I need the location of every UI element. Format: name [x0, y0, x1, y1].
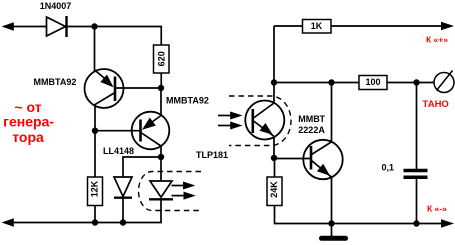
svg-text:К «+»: К «+»: [426, 35, 448, 45]
svg-text:MMBTA92: MMBTA92: [34, 77, 77, 87]
wire: Q4 collector up to node H: [331, 83, 333, 142]
arrow: to battery minus (bottom right): [441, 219, 454, 227]
svg-text:ТАНО: ТАНО: [423, 99, 449, 110]
wire: R24K bottom to bottom rail: [275, 206, 444, 224]
wire: D1 cathode to node A: [68, 26, 95, 28]
wire: node B down to Q2 emitter: [160, 88, 162, 116]
svg-text:1N4007: 1N4007: [40, 1, 72, 11]
U1 light arrow 1: [218, 112, 243, 120]
svg-text:0,1: 0,1: [382, 162, 395, 172]
arrow: to generator (top left): [2, 22, 14, 30]
svg-text:MMBTA92: MMBTA92: [166, 95, 209, 105]
wire: node I down to C1: [416, 83, 418, 170]
svg-text:~ от: ~ от: [14, 99, 41, 115]
node C (Q1 collector / Q2 base): [92, 128, 98, 134]
wire: Q4 emitter down to ground node: [331, 177, 333, 223]
node G (phototransistor collector node): [271, 79, 277, 85]
svg-text:620: 620: [157, 51, 167, 66]
resistor R2 12K: [88, 177, 103, 206]
wire: node J to Q4 base: [274, 158, 312, 160]
svg-text:ММВТ: ММВТ: [298, 114, 325, 124]
node A (D1 / Q1 emitter / R620): [91, 23, 97, 29]
wire: node D to LED anode: [160, 157, 162, 181]
transistor Q1 MMBTA92 (PNP): [85, 69, 124, 108]
svg-text:TLP181: TLP181: [196, 150, 228, 160]
diode D2 LL4148: [114, 177, 132, 198]
wire: Q1 base to node B: [115, 87, 161, 89]
node B (R620 / Q1 base / Q2 emitter): [158, 85, 164, 91]
wire: node J down to R24K: [274, 158, 276, 177]
transistor Q2 MMBTA92 (PNP): [132, 112, 170, 150]
wire: Q1 collector down to R12K: [94, 105, 96, 177]
node D (Q2 collector / LL4148 anode / LED anode): [158, 154, 164, 160]
wire: node A to R620 top: [95, 27, 162, 46]
wire: node A down to Q1 emitter: [94, 27, 96, 72]
node I (C1 top / output): [413, 79, 419, 85]
node H (Q4 collector tap): [328, 79, 334, 85]
wire: node D to LL4148 anode: [123, 157, 161, 177]
node J (Q4 base / R24K top): [271, 155, 277, 161]
resistor R3 1K: [303, 20, 332, 34]
arrow: to generator return (bottom left): [2, 218, 14, 226]
ground: [322, 224, 346, 239]
U1 light arrow 2: [218, 122, 243, 130]
wire: bottom-left generator return rail: [6, 222, 162, 224]
svg-text:24K: 24K: [269, 181, 279, 198]
wire: Q2 collector to node D: [160, 146, 162, 157]
optocoupler U1 phototransistor: [245, 101, 284, 140]
wire: R100 right to output terminal: [387, 82, 434, 84]
arrow: to battery plus (top right): [441, 22, 454, 30]
capacitor C1: [404, 171, 428, 178]
svg-text:LL4148: LL4148: [103, 146, 134, 156]
node F (LL4148 / rail): [120, 219, 126, 225]
wire: top-right +12V rail: [274, 25, 443, 27]
wire: 1K left end down to node G: [273, 26, 275, 103]
wire: LED cathode to rail: [160, 199, 162, 222]
svg-text:генера-: генера-: [3, 114, 54, 130]
U1 phototransistor dashed outline: [229, 96, 291, 146]
wire: node C to Q2 base: [95, 130, 141, 132]
U1 LED dashed outline: [139, 172, 202, 211]
svg-text:1K: 1K: [311, 21, 323, 31]
wire: LL4148 cathode to bottom rail: [122, 199, 124, 223]
transistor Q3 MMBT2222A (NPN): [303, 140, 342, 179]
svg-text:12K: 12K: [90, 180, 100, 197]
svg-text:К «-»: К «-»: [427, 204, 447, 214]
resistor R1 620: [154, 45, 170, 73]
diode D1 1N4007: [47, 16, 67, 37]
wire: C1 bottom to rail: [416, 179, 418, 224]
node E (R12K / rail): [92, 219, 98, 225]
optocoupler U1 TLP181 LED: [149, 181, 173, 199]
wire: R620 bottom to node B: [160, 73, 162, 88]
wire: top-left generator rail: [6, 26, 47, 28]
wire: phototransistor emitter to node J: [273, 136, 275, 158]
wire: node G to R100: [274, 82, 359, 84]
U1 LED emission arrow 1: [172, 182, 196, 190]
wire: R12K bottom to rail: [94, 206, 96, 223]
resistor R5 24K: [267, 177, 282, 206]
svg-text:2222A: 2222A: [298, 125, 325, 135]
resistor R4 100: [359, 76, 387, 90]
label: from generator (red): [3, 99, 54, 145]
output terminal circle (tacho): [434, 71, 454, 93]
svg-text:тора: тора: [12, 129, 44, 145]
node K (Q4 emitter / ground / rail): [328, 220, 334, 226]
svg-text:100: 100: [365, 77, 380, 87]
U1 LED emission arrow 2: [172, 192, 196, 200]
node L (C1 / rail): [413, 220, 419, 226]
